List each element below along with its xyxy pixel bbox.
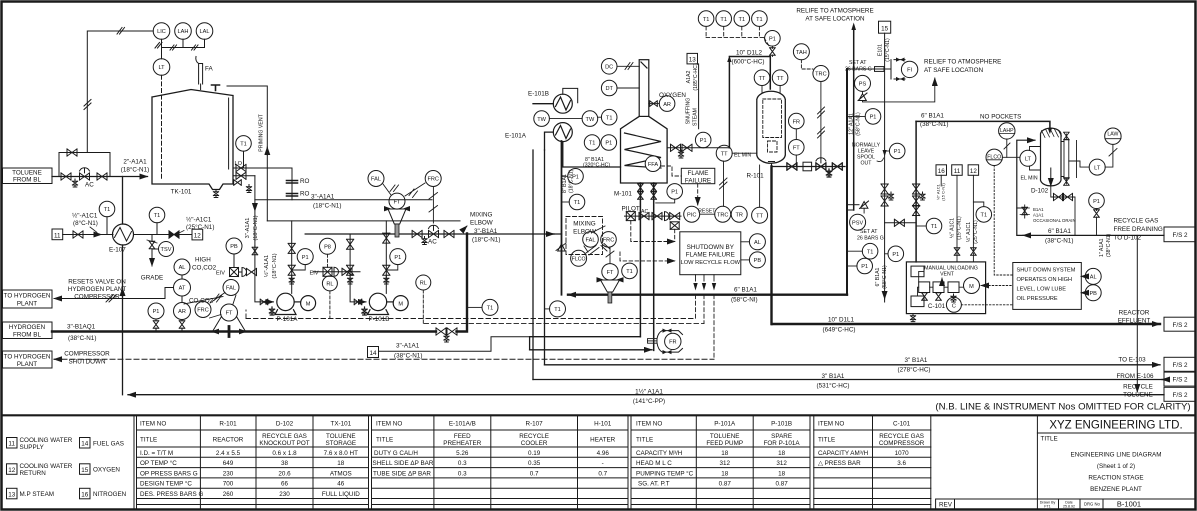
svg-text:TOLUENE: TOLUENE [1123, 392, 1153, 399]
dashed interlock lines [246, 310, 704, 324]
furnace outlet valves [667, 144, 729, 158]
svg-text:DES. PRESS BARS G: DES. PRESS BARS G [140, 491, 203, 498]
svg-text:LAH: LAH [178, 29, 189, 35]
label NORMALLY LEAVE SPOOL OUT [852, 143, 887, 167]
drain [72, 179, 77, 187]
svg-text:OP TEMP °C: OP TEMP °C [140, 459, 177, 467]
svg-text:0.6 x 1.8: 0.6 x 1.8 [272, 450, 297, 457]
svg-text:B-1001: B-1001 [1117, 500, 1141, 509]
restriction orifice drop [287, 168, 310, 200]
svg-text:SHELL SIDE ΔP BAR: SHELL SIDE ΔP BAR [373, 460, 434, 467]
svg-text:PRIMING VENT: PRIMING VENT [259, 113, 265, 151]
svg-text:(38°C-N1): (38°C-N1) [394, 352, 422, 360]
svg-text:LEVEL, LOW LUBE: LEVEL, LOW LUBE [1017, 287, 1067, 293]
svg-text:FT1: FT1 [1044, 505, 1050, 509]
svg-text:(18°C-N1): (18°C-N1) [313, 202, 341, 210]
grade discharge [141, 249, 163, 282]
label RELIFE TO ATMOSPHERE [796, 8, 873, 23]
instrument T1 e101 [598, 109, 617, 125]
svg-text:AC: AC [641, 209, 648, 215]
svg-text:C-101: C-101 [928, 303, 946, 310]
svg-text:SET AT: SET AT [849, 60, 867, 66]
svg-text:TITLE: TITLE [1041, 436, 1058, 443]
svg-text:3" B1A1: 3" B1A1 [905, 357, 928, 364]
exchanger E-101A [553, 123, 572, 142]
instrument LIC [153, 23, 170, 40]
label half inch A1C1 25C [178, 216, 214, 234]
label 3"-B1AQ1 [67, 324, 96, 343]
priming vent line [227, 86, 267, 221]
instrument TT dome right [772, 70, 788, 93]
svg-text:FAL: FAL [226, 286, 236, 292]
svg-text:FR: FR [669, 340, 676, 346]
recycle gas main 6 inch B1A1 [562, 141, 848, 295]
instrument P1 lube [885, 246, 904, 262]
svg-text:STEAM: STEAM [692, 108, 698, 126]
svg-text:P1: P1 [769, 37, 776, 43]
instrument T1 12line [847, 243, 878, 259]
instrument P1 outlet [601, 135, 617, 151]
svg-text:RECYCLE: RECYCLE [1123, 384, 1153, 391]
legend box 15 oxygen [80, 464, 121, 475]
svg-text:FRC: FRC [427, 177, 439, 183]
svg-text:(15 C-N1): (15 C-N1) [941, 183, 946, 201]
label 6 B1A1 vertical [875, 265, 888, 289]
svg-text:FT: FT [793, 146, 800, 152]
instrument FAL [223, 280, 239, 296]
svg-text:SG. AT. P.T: SG. AT. P.T [638, 481, 670, 488]
box F/S 2 to E-103 [1164, 357, 1196, 371]
equipment table 3 grid [631, 415, 814, 509]
instrument TAH [793, 44, 813, 69]
legend box 13 MP steam [7, 488, 55, 499]
svg-text:(25°C-N1): (25°C-N1) [973, 220, 979, 244]
box 16 nitrogen [936, 165, 947, 201]
pump suction header [267, 220, 460, 222]
svg-text:TO HYDROGEN: TO HYDROGEN [4, 293, 51, 300]
instrument PB shutdown [741, 252, 766, 268]
svg-text:16: 16 [81, 491, 89, 498]
equipment table 2 text [373, 421, 616, 478]
box F/S 2 recycle gas [1164, 227, 1196, 242]
instrument P8 [320, 238, 336, 267]
svg-text:(18°C-N1): (18°C-N1) [272, 253, 278, 278]
instrument LT [153, 59, 170, 76]
d102 bottom drain [1051, 186, 1075, 235]
svg-text:8" B1A1: 8" B1A1 [562, 174, 568, 193]
svg-text:MIXING: MIXING [573, 221, 595, 228]
recycle toluene riser through E-107 [122, 177, 124, 395]
svg-text:BENZENE PLANT: BENZENE PLANT [1090, 486, 1142, 493]
svg-text:OCCASIONAL DRAIN: OCCASIONAL DRAIN [1033, 218, 1076, 223]
svg-text:AT SAFE LOCATION: AT SAFE LOCATION [805, 16, 865, 23]
equipment table 3 text [636, 421, 800, 488]
svg-text:T1: T1 [756, 17, 763, 23]
instrument PS [855, 75, 871, 93]
burner fuel riser [639, 183, 641, 337]
svg-text:P1: P1 [892, 252, 899, 258]
svg-text:FT: FT [394, 199, 401, 205]
svg-text:10" D1L2: 10" D1L2 [736, 50, 763, 57]
exchanger top loop [563, 88, 578, 102]
suction line valves [913, 184, 926, 216]
svg-text:FEED PUMP: FEED PUMP [706, 440, 743, 447]
svg-text:(25°C-N1): (25°C-N1) [186, 223, 214, 231]
instrument LT d102 left [1020, 147, 1041, 171]
instrument LAL [196, 23, 213, 40]
instrument T1 cooling [973, 202, 991, 222]
svg-text:½"-A1C1: ½"-A1C1 [186, 216, 212, 224]
svg-text:312: 312 [776, 460, 787, 467]
svg-text:(185°C-HC): (185°C-HC) [693, 63, 699, 90]
REV strip [936, 499, 1038, 509]
relief valve PS [858, 78, 935, 102]
svg-text:PLANT: PLANT [17, 361, 37, 368]
fuel gas header [530, 337, 641, 350]
svg-text:18: 18 [778, 450, 786, 457]
svg-text:(15°C-N1): (15°C-N1) [885, 38, 891, 62]
svg-text:AT: AT [179, 286, 186, 292]
E-101 tube side risers [533, 150, 545, 380]
label RESETS VALVE [68, 279, 127, 301]
svg-text:PB: PB [1089, 291, 1097, 297]
hydrogen feed main line [52, 234, 467, 337]
svg-text:TX-101: TX-101 [330, 421, 351, 428]
svg-text:1" A1A1: 1" A1A1 [1099, 238, 1105, 257]
instrument FRC recycle [601, 232, 617, 248]
gate valve [73, 231, 83, 238]
svg-text:FRC: FRC [603, 238, 615, 244]
svg-text:14: 14 [81, 441, 89, 448]
label 6" B1A1 58C [731, 287, 758, 304]
svg-text:46: 46 [337, 481, 345, 488]
svg-text:LOW RECYCLE FLOW: LOW RECYCLE FLOW [681, 260, 741, 266]
double block valves on hydrogen line [436, 328, 457, 342]
svg-text:TW: TW [537, 117, 546, 123]
reactor R-101 vessel [757, 91, 786, 166]
svg-text:18: 18 [721, 470, 729, 477]
svg-text:AL: AL [1090, 275, 1097, 281]
solenoid EIV [216, 268, 239, 277]
svg-text:MIXING: MIXING [470, 212, 492, 219]
instrument P1 [148, 303, 164, 332]
svg-text:TSV: TSV [161, 247, 172, 253]
svg-text:T1: T1 [104, 207, 111, 213]
svg-text:OXYGEN: OXYGEN [659, 92, 686, 99]
svg-text:REV: REV [939, 502, 953, 509]
pump A suction [252, 246, 273, 305]
svg-text:½" A1C1: ½" A1C1 [949, 218, 956, 238]
svg-text:ITEM NO: ITEM NO [636, 421, 662, 428]
svg-text:E-101A: E-101A [505, 133, 527, 140]
svg-text:LAW: LAW [1107, 132, 1118, 138]
box SHUTDOWN BY FLAME FAILURE [680, 232, 741, 275]
flow orifice FI loop [847, 58, 905, 82]
label 10" D1L2 [732, 50, 765, 66]
svg-text:FROM BL: FROM BL [13, 332, 41, 339]
svg-text:FEED: FEED [454, 433, 471, 440]
svg-text:0.87: 0.87 [775, 481, 788, 488]
svg-text:230: 230 [279, 491, 290, 498]
label RELIEF TO ATMOSPHERE right [924, 59, 1001, 75]
svg-text:△ PRESS BAR: △ PRESS BAR [818, 460, 861, 467]
svg-text:FREE DRAINING: FREE DRAINING [1114, 226, 1163, 233]
instrument TT dome left [754, 70, 770, 93]
svg-text:(8°C-N1): (8°C-N1) [73, 219, 98, 227]
svg-text:DT: DT [605, 86, 613, 92]
svg-text:R-101: R-101 [747, 173, 765, 180]
svg-text:11: 11 [8, 441, 15, 448]
instrument FR reactor [789, 113, 805, 139]
svg-text:FA: FA [205, 66, 213, 73]
svg-text:6" B1A1: 6" B1A1 [734, 287, 757, 294]
LO gate valves at tank outlet [233, 164, 292, 192]
legend box 16 nitrogen [80, 488, 127, 499]
svg-text:A1A1: A1A1 [1033, 213, 1044, 218]
svg-text:P-101B: P-101B [771, 421, 792, 428]
svg-text:SHUTDOWN: SHUTDOWN [68, 359, 106, 366]
instrument PB sds [1081, 285, 1101, 301]
svg-text:6" B1A1: 6" B1A1 [921, 113, 944, 120]
labels 6" B1A1 no pockets [920, 113, 1021, 129]
instrument T1 suction [916, 218, 942, 234]
reactor effluent downcomer [770, 167, 772, 325]
instrument TR [731, 206, 747, 222]
level bridle [1061, 132, 1077, 185]
svg-text:(278°C-HC): (278°C-HC) [898, 366, 931, 374]
node toluene feed line [52, 153, 148, 177]
suction line D-102 to compressor [916, 121, 1052, 134]
vertical labels 3"-A1A1 and half A1A1 [245, 215, 278, 278]
svg-text:OUT: OUT [861, 161, 873, 167]
thermocouple dashed leads [706, 26, 770, 48]
svg-text:(58°C-NI): (58°C-NI) [731, 296, 758, 304]
svg-text:NITROGEN: NITROGEN [93, 491, 127, 498]
svg-text:NO POCKETS: NO POCKETS [980, 114, 1021, 121]
svg-text:-: - [602, 460, 604, 467]
svg-text:LT: LT [158, 65, 165, 71]
svg-text:(531°C-HC): (531°C-HC) [817, 382, 850, 390]
svg-text:COMPRESSOR: COMPRESSOR [879, 440, 925, 447]
svg-text:0.87: 0.87 [719, 481, 732, 488]
box 12 cooling water return [192, 229, 203, 240]
instrument TT row [752, 165, 768, 223]
svg-text:TITLE: TITLE [636, 437, 653, 444]
svg-text:0.19: 0.19 [528, 450, 541, 457]
vent nozzle [212, 85, 220, 91]
svg-text:TT: TT [721, 151, 728, 157]
wire TT to TRC [720, 161, 728, 206]
line E-107 to box 12 [134, 234, 193, 236]
box SHUT DOWN SYSTEM [1013, 263, 1082, 310]
svg-text:26 BARS G: 26 BARS G [845, 67, 872, 73]
svg-text:R-101: R-101 [219, 421, 237, 428]
box F/S 2 reactor effluent [1164, 317, 1196, 331]
svg-text:RELIEF TO ATMOSPHERE: RELIEF TO ATMOSPHERE [924, 59, 1001, 66]
svg-text:E101: E101 [878, 44, 884, 56]
thermocouple T1 row [698, 11, 714, 27]
recycle gas free draining line [1017, 140, 1164, 235]
instrument T1 outlet [584, 135, 600, 151]
svg-text:COOLING WATER: COOLING WATER [20, 437, 73, 444]
svg-text:M.P STEAM: M.P STEAM [20, 491, 55, 498]
pump A riser [288, 221, 295, 294]
svg-text:C: C [952, 303, 956, 309]
legend right double border [134, 415, 137, 509]
svg-text:TUBE SIDE ΔP BAR: TUBE SIDE ΔP BAR [373, 470, 431, 477]
signal slashes recycle cluster [584, 226, 614, 264]
svg-text:RELIFE TO ATMOSPHERE: RELIFE TO ATMOSPHERE [796, 8, 873, 15]
svg-text:HIGH: HIGH [195, 257, 211, 264]
svg-text:SHUTDOWN BY: SHUTDOWN BY [687, 244, 735, 251]
svg-text:2"-A1A1: 2"-A1A1 [123, 159, 147, 166]
instrument P1 12line lower [847, 258, 873, 274]
svg-text:3"-A1A1: 3"-A1A1 [245, 218, 251, 239]
svg-text:11: 11 [954, 168, 961, 175]
svg-text:18: 18 [778, 470, 786, 477]
instrument FT hydrogen [213, 304, 246, 334]
svg-text:RECYCLE GAS: RECYCLE GAS [879, 433, 924, 440]
svg-text:PREHEATER: PREHEATER [443, 440, 481, 447]
pilot gas line to FR [530, 349, 652, 351]
svg-text:3.6: 3.6 [897, 460, 906, 467]
instrument P1 spool [885, 143, 905, 159]
labels snuffing steam [686, 63, 700, 126]
svg-text:TITLE: TITLE [376, 437, 393, 444]
toluene run-down line 3"-A1A1 [255, 176, 432, 246]
instrument AL sds [1081, 268, 1101, 284]
svg-text:0.7: 0.7 [530, 470, 539, 477]
svg-text:3"-A1A1: 3"-A1A1 [311, 194, 335, 201]
svg-text:ITEM NO: ITEM NO [818, 421, 844, 428]
tank TK-101 [152, 90, 233, 190]
svg-text:DC: DC [605, 65, 613, 71]
svg-text:AT SAFE LOCATION: AT SAFE LOCATION [924, 67, 984, 74]
labels 12" A1A1 [849, 112, 862, 136]
instrument PIC [684, 206, 700, 222]
svg-text:(18°C-N1): (18°C-N1) [253, 215, 259, 240]
crossover line [885, 219, 917, 226]
instrument P1 12line [847, 109, 881, 125]
relief header to atmosphere [851, 23, 856, 211]
catalyst bed dashed [763, 99, 782, 152]
svg-text:(141°C-PP): (141°C-PP) [633, 397, 665, 405]
svg-text:F/S 2: F/S 2 [1172, 377, 1188, 384]
svg-text:TT: TT [759, 76, 766, 82]
pump B riser [383, 221, 390, 294]
pilot gas valve row [625, 209, 682, 229]
instrument T1 [99, 201, 115, 234]
svg-text:LT: LT [1094, 165, 1101, 171]
svg-text:12: 12 [194, 233, 202, 240]
svg-text:P1: P1 [861, 264, 868, 270]
svg-text:700: 700 [223, 481, 234, 488]
reactor effluent 10 inch D1L1 [772, 323, 1160, 325]
svg-text:3"-B1A1: 3"-B1A1 [474, 228, 498, 235]
svg-text:SNUFFING: SNUFFING [686, 98, 692, 125]
equipment table 2 grid [372, 415, 632, 509]
svg-text:FRC: FRC [197, 308, 209, 314]
svg-text:T1: T1 [626, 269, 633, 275]
svg-text:T1: T1 [554, 307, 561, 313]
svg-text:RECYCLE GAS: RECYCLE GAS [1114, 218, 1159, 225]
svg-text:EL MIN: EL MIN [1021, 176, 1038, 182]
instrument T1 riser [562, 194, 585, 210]
relief valve TSV [147, 235, 174, 257]
svg-text:P1: P1 [153, 309, 160, 315]
instrument P1 pump A [292, 249, 314, 270]
thermocouple T1 [716, 11, 732, 27]
svg-text:DESIGN TEMP °C: DESIGN TEMP °C [140, 480, 192, 488]
svg-text:TOLUENE: TOLUENE [12, 170, 42, 177]
box 11 cooling supply [952, 165, 963, 262]
instrument P1 top [765, 31, 781, 57]
svg-text:RESETS VALVE ON: RESETS VALVE ON [68, 279, 126, 286]
svg-text:C-101: C-101 [893, 421, 911, 428]
svg-text:HEAD M L C: HEAD M L C [636, 460, 672, 467]
svg-text:REACTOR: REACTOR [1119, 310, 1150, 317]
instrument TW left [534, 111, 582, 127]
svg-text:H-101: H-101 [594, 421, 612, 428]
svg-text:P8: P8 [324, 245, 331, 251]
svg-text:AC: AC [85, 182, 94, 189]
instrument PB [226, 238, 242, 268]
svg-text:EIV: EIV [310, 271, 319, 277]
svg-text:VENT: VENT [940, 272, 955, 278]
title block [1037, 415, 1195, 509]
svg-text:12: 12 [8, 467, 16, 474]
svg-text:3"-A1A1: 3"-A1A1 [396, 343, 420, 350]
svg-text:SUPPLY: SUPPLY [20, 444, 45, 451]
pump P-101B [362, 293, 408, 323]
line from 14 fuel gas [368, 337, 530, 360]
svg-text:M: M [398, 302, 403, 308]
instrument AT [174, 275, 191, 296]
instrument T1 on 6 line [545, 301, 566, 317]
svg-text:(38°C-N1): (38°C-N1) [920, 120, 948, 128]
svg-text:P1: P1 [302, 255, 309, 261]
svg-text:12: 12 [970, 168, 978, 175]
svg-text:E-101A/B: E-101A/B [449, 421, 476, 428]
svg-text:EIV: EIV [216, 271, 225, 277]
svg-text:PLANT: PLANT [17, 301, 37, 308]
svg-text:RETURN: RETURN [20, 470, 47, 477]
svg-text:(15°C-N1): (15°C-N1) [957, 216, 963, 240]
solenoid EIV pumps [310, 267, 361, 276]
svg-text:(18°C-N1): (18°C-N1) [569, 169, 575, 193]
instrument T1 right of E-107 [149, 207, 165, 234]
svg-text:FAL: FAL [586, 238, 596, 244]
signal slashes FAL FRC FT [210, 293, 237, 319]
svg-text:T1: T1 [574, 200, 581, 206]
svg-text:T1: T1 [931, 224, 938, 230]
svg-text:TITLE: TITLE [140, 437, 157, 444]
svg-text:20.6: 20.6 [278, 470, 291, 477]
svg-text:T1: T1 [589, 141, 596, 147]
svg-text:(38°C-N1): (38°C-N1) [1106, 233, 1112, 257]
dotted arrow into M [981, 285, 985, 287]
svg-text:FLAME: FLAME [688, 170, 709, 177]
legend box 11 cooling water supply [7, 437, 73, 451]
svg-text:LIC: LIC [157, 29, 166, 35]
box FLAME FAILURE [681, 168, 715, 184]
reactor bottom outlet [772, 158, 846, 177]
svg-text:SET AT: SET AT [860, 229, 878, 235]
instrument FT reactor [789, 140, 805, 167]
svg-text:CAPACITY M³/H: CAPACITY M³/H [636, 450, 683, 457]
svg-text:0.3: 0.3 [458, 460, 467, 467]
thermocouple T1 [734, 11, 750, 27]
